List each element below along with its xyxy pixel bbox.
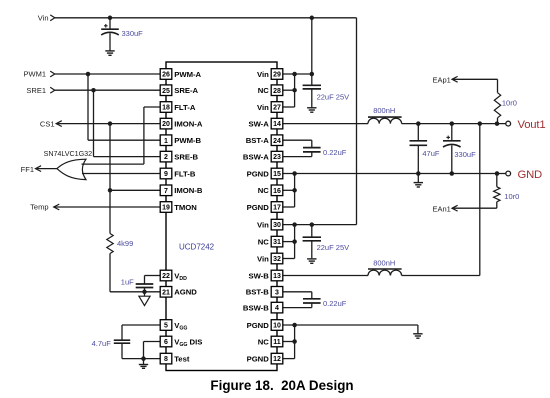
node Temp output (30, 203, 59, 212)
pin 2 SRE-B (left) (160, 151, 198, 162)
svg-text:800nH: 800nH (373, 258, 395, 267)
capacitor 0.22uF B (303, 299, 347, 308)
pin 30 Vin (right) (257, 219, 283, 230)
svg-text:12: 12 (273, 356, 281, 363)
wire 4.7uF to Test pin (122, 356, 160, 361)
svg-text:NC: NC (258, 186, 270, 195)
svg-text:4: 4 (275, 305, 279, 312)
svg-text:6: 6 (164, 339, 168, 346)
svg-text:22uF 25V: 22uF 25V (317, 243, 350, 252)
svg-text:47uF: 47uF (422, 149, 440, 158)
svg-text:PWM-B: PWM-B (174, 136, 201, 145)
capacitor 330uF input (101, 18, 143, 51)
svg-text:5: 5 (164, 323, 168, 330)
svg-text:22: 22 (162, 273, 170, 280)
svg-text:PGND: PGND (247, 203, 270, 212)
pin 8 Test (left) (160, 353, 190, 364)
svg-text:10r0: 10r0 (502, 99, 517, 108)
ground below 330uF input (105, 51, 114, 55)
svg-text:10: 10 (273, 323, 281, 330)
capacitor 0.22uF A (303, 148, 347, 157)
pin 6 VGG DIS (left) (160, 336, 202, 348)
svg-text:EAn1: EAn1 (432, 204, 450, 213)
svg-text:10r0: 10r0 (504, 192, 519, 201)
svg-text:EAp1: EAp1 (432, 76, 450, 85)
wire Vin top rail (55, 16, 357, 21)
ground below 22uF bottom (307, 259, 316, 263)
svg-text:PGND: PGND (247, 354, 270, 363)
svg-text:29: 29 (273, 72, 281, 79)
node EAn1 output (432, 204, 457, 213)
svg-text:SRE-A: SRE-A (174, 86, 198, 95)
wire PGND12 stub (283, 325, 295, 359)
pin 32 Vin (right) (257, 253, 283, 264)
node EAp1 output (432, 76, 457, 85)
caption Figure 18 (210, 378, 353, 393)
svg-text:PWM1: PWM1 (24, 70, 47, 79)
svg-text:IMON-B: IMON-B (174, 186, 203, 195)
capacitor 47uF output (410, 124, 440, 174)
svg-text:2: 2 (164, 154, 168, 161)
wire PGND17 stub (283, 174, 295, 208)
svg-text:SW-A: SW-A (248, 119, 269, 128)
pin 4 BSW-B (right) (243, 302, 283, 313)
svg-text:7: 7 (164, 188, 168, 195)
wire NC pin28 stub (283, 88, 297, 93)
node Vin input connector (38, 14, 55, 23)
svg-text:IMON-A: IMON-A (174, 119, 203, 128)
pin 9 FLT-B (left) (160, 168, 196, 179)
svg-text:28: 28 (273, 88, 281, 95)
wire PGND10 rail (283, 323, 418, 328)
wire SW-A to inductor (283, 123, 368, 125)
svg-text:UCD7242: UCD7242 (179, 243, 215, 252)
svg-text:PWM-A: PWM-A (174, 70, 201, 79)
svg-text:24: 24 (273, 138, 281, 145)
svg-text:Vin: Vin (38, 14, 49, 23)
wire NC11 stub (283, 339, 297, 344)
svg-text:21: 21 (162, 289, 170, 296)
svg-text:Vin: Vin (257, 103, 269, 112)
svg-text:16: 16 (273, 188, 281, 195)
ground below 22uF top (307, 108, 316, 112)
wire GND to 10r0 lower (496, 174, 498, 187)
node PWM1 input (24, 70, 55, 79)
wire BSW-A stub (283, 152, 312, 157)
pin 27 Vin (right) (257, 102, 283, 113)
svg-text:26: 26 (162, 72, 170, 79)
wire OR input A from FLT-A (82, 107, 161, 164)
wire BST-A stub (283, 140, 312, 147)
pin 31 NC (right) (258, 236, 283, 247)
svg-text:VGG: VGG (174, 321, 187, 332)
svg-text:13: 13 (273, 273, 281, 280)
inductor L2 800nH (368, 258, 402, 275)
svg-text:15: 15 (273, 171, 281, 178)
pin 26 PWM-A (left) (160, 69, 201, 80)
resistor 4k99 (107, 234, 133, 254)
resistor 10r0 lower (494, 187, 520, 202)
svg-text:18: 18 (162, 105, 170, 112)
svg-text:23: 23 (273, 154, 281, 161)
svg-text:9: 9 (164, 171, 168, 178)
svg-text:AGND: AGND (174, 288, 197, 297)
wire Vin pin29 stub (283, 72, 314, 77)
svg-text:31: 31 (273, 239, 281, 246)
pin 13 SW-B (right) (248, 270, 282, 281)
svg-text:TMON: TMON (174, 203, 197, 212)
pin 23 BSW-A (right) (243, 151, 283, 162)
svg-text:800nH: 800nH (373, 106, 395, 115)
pin 28 NC (right) (258, 85, 283, 96)
svg-text:20: 20 (162, 121, 170, 128)
wire SRE1 to SRE-A (55, 88, 160, 93)
svg-text:SRE1: SRE1 (26, 86, 46, 95)
pin 21 AGND (left) (160, 287, 197, 298)
svg-text:FLT-A: FLT-A (174, 103, 196, 112)
wire BSW-B stub (283, 303, 312, 308)
svg-text:Vin: Vin (257, 254, 269, 263)
analog ground AGND triangle (139, 292, 150, 306)
node FF1 output (21, 165, 41, 174)
pin 20 IMON-A (left) (160, 118, 203, 129)
svg-text:VGG DIS: VGG DIS (174, 337, 202, 348)
svg-text:NC: NC (258, 86, 270, 95)
svg-text:Vout1: Vout1 (518, 119, 546, 131)
wire NC31 stub (283, 239, 297, 244)
svg-text:14: 14 (273, 121, 281, 128)
pin 5 VGG (left) (160, 320, 187, 332)
svg-text:BSW-B: BSW-B (243, 303, 269, 312)
ground below PGND10 rail (413, 325, 422, 338)
svg-text:PGND: PGND (247, 169, 270, 178)
svg-text:0.22uF: 0.22uF (323, 299, 347, 308)
wire EAp1 to 10r0 (452, 79, 498, 92)
pin 24 BST-A (right) (246, 135, 283, 146)
svg-text:330uF: 330uF (122, 29, 144, 38)
wire CS1 to IMON-A (56, 121, 160, 126)
pin 29 Vin (right) (257, 69, 283, 80)
svg-text:VDD: VDD (174, 271, 187, 282)
wire 10r0 to Vout rail (497, 118, 499, 124)
ground on GND rail (414, 174, 423, 188)
capacitor 4.7uF VGG (92, 325, 161, 359)
wire 10r0 to EAn1 (452, 202, 497, 208)
wire NC16 stub (283, 188, 297, 193)
pin 14 SW-A (right) (248, 118, 282, 129)
svg-text:3: 3 (275, 289, 279, 296)
pin 15 PGND (right) (247, 168, 283, 179)
svg-text:11: 11 (273, 339, 281, 346)
pin 1 PWM-B (left) (160, 135, 201, 146)
pin 12 PGND (right) (247, 353, 283, 364)
svg-text:Figure 18. 20A Design: Figure 18. 20A Design (210, 378, 353, 393)
svg-text:19: 19 (162, 205, 170, 212)
wire SW-B filter to Vout node (402, 124, 480, 276)
svg-text:BST-B: BST-B (246, 288, 270, 297)
svg-text:17: 17 (273, 205, 281, 212)
svg-text:27: 27 (273, 105, 281, 112)
svg-text:25: 25 (162, 88, 170, 95)
svg-text:22uF 25V: 22uF 25V (317, 93, 350, 102)
wire BST-B stub (283, 292, 312, 299)
svg-text:SW-B: SW-B (248, 271, 269, 280)
pin 7 IMON-B (left) (160, 185, 203, 196)
svg-text:GND: GND (518, 169, 543, 181)
svg-text:BSW-A: BSW-A (243, 152, 269, 161)
capacitor 22uF 25V bottom (303, 225, 350, 259)
pin 10 PGND (right) (247, 320, 283, 331)
svg-text:BST-A: BST-A (246, 136, 270, 145)
wire Temp to TMON (54, 206, 161, 208)
wire FF1 to OR gate output (36, 168, 58, 170)
wire CS1 vertical to IMON-B and 4k99 (108, 124, 160, 234)
wire Vin vertical to Vin pins (356, 18, 358, 225)
svg-text:1uF: 1uF (121, 277, 134, 286)
op-amp U1 UCD7242 body (166, 62, 277, 371)
pin 3 BST-B (right) (246, 287, 283, 298)
capacitor 330uF output (443, 124, 476, 174)
svg-text:8: 8 (164, 356, 168, 363)
svg-text:FLT-B: FLT-B (174, 169, 196, 178)
svg-text:CS1: CS1 (40, 119, 55, 128)
svg-text:330uF: 330uF (454, 150, 476, 159)
svg-text:Test: Test (174, 354, 190, 363)
wire 4k99 to AGND (110, 254, 160, 295)
pin 17 PGND (right) (247, 202, 283, 213)
inductor L1 800nH (368, 106, 402, 123)
svg-text:NC: NC (258, 237, 270, 246)
svg-text:4.7uF: 4.7uF (92, 339, 112, 348)
wire PWM1 to PWM-B (88, 74, 160, 140)
svg-text:PGND: PGND (247, 321, 270, 330)
svg-text:32: 32 (273, 256, 281, 263)
pin 19 TMON (left) (160, 202, 197, 213)
svg-text:4k99: 4k99 (117, 239, 133, 248)
pin 16 NC (right) (258, 185, 283, 196)
svg-text:SN74LVC1G32: SN74LVC1G32 (44, 149, 93, 158)
or-gate U2 SN74LVC1G32 (44, 149, 93, 180)
node Vout1 terminal (506, 119, 546, 131)
node SRE1 input (26, 86, 54, 95)
svg-text:Vin: Vin (257, 70, 269, 79)
capacitor 1uF VDD (121, 276, 160, 292)
pin 18 FLT-A (left) (160, 102, 196, 113)
wire VGG DIS to ground junction (144, 342, 161, 359)
ground below Test junction (139, 359, 148, 369)
svg-text:SRE-B: SRE-B (174, 152, 198, 161)
svg-text:Vin: Vin (257, 220, 269, 229)
capacitor 22uF 25V top (303, 18, 350, 108)
wire Vin pin30 (283, 222, 357, 227)
pin 11 NC (right) (258, 336, 283, 347)
svg-text:0.22uF: 0.22uF (323, 148, 347, 157)
wire OR input B from FLT-B (82, 173, 160, 175)
svg-text:Temp: Temp (30, 203, 48, 212)
node GND terminal (506, 169, 542, 181)
wire Vin pin27 stub (283, 74, 295, 107)
wire PGND15 rail to GND (283, 171, 506, 176)
wire Vout1 rail (402, 121, 506, 126)
pin 22 VDD (left) (160, 270, 187, 282)
svg-text:NC: NC (258, 337, 270, 346)
svg-text:30: 30 (273, 222, 281, 229)
node CS1 output (40, 119, 62, 128)
wire SRE1 to SRE-B (94, 90, 161, 156)
wire Vin pin32 stub (283, 225, 295, 259)
wire PWM1 to PWM-A (55, 72, 160, 77)
svg-text:1: 1 (164, 138, 168, 145)
wire SW-B to inductor (283, 275, 368, 277)
svg-text:FF1: FF1 (21, 165, 34, 174)
pin 25 SRE-A (left) (160, 85, 198, 96)
resistor 10r0 upper (494, 93, 517, 118)
